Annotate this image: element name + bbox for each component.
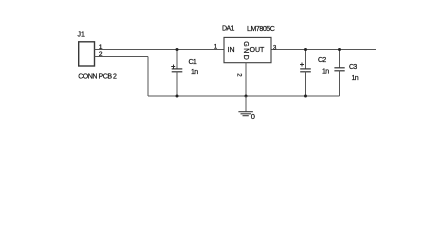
wire ground rail (bottom) xyxy=(148,95,340,97)
wire DA1 OUT to right (VOUT net, top rail right) xyxy=(271,49,376,51)
wire C3 bottom lead xyxy=(339,71,341,96)
ground bar 2 xyxy=(241,113,252,115)
wire J1 pin2 horizontal xyxy=(95,56,149,58)
wire C1 top lead xyxy=(176,50,178,69)
regulator body xyxy=(224,37,271,62)
svg-text:CONN PCB 2: CONN PCB 2 xyxy=(78,73,117,80)
ground bar 1 xyxy=(238,111,253,113)
svg-text:GND: GND xyxy=(242,41,249,61)
C1 polarity plus sign xyxy=(171,66,175,68)
capacitor C3 xyxy=(334,50,358,97)
wire C1 bottom lead xyxy=(176,72,178,96)
svg-text:C1: C1 xyxy=(189,59,197,66)
regulator DA1 xyxy=(222,25,275,62)
junction node ground rail / DA1 GND xyxy=(245,95,248,98)
wire DA1 GND pin down to ground rail xyxy=(245,63,247,96)
svg-text:C3: C3 xyxy=(349,64,357,71)
svg-text:3: 3 xyxy=(273,45,277,52)
C2 polarity plus sign xyxy=(300,64,304,66)
svg-text:OUT: OUT xyxy=(250,47,266,54)
wire C2 bottom lead xyxy=(305,72,307,96)
C2 bottom plate xyxy=(300,71,311,73)
svg-text:1n: 1n xyxy=(191,69,198,76)
svg-text:IN: IN xyxy=(228,47,235,54)
svg-text:1n: 1n xyxy=(322,68,329,75)
svg-text:LM7805C: LM7805C xyxy=(247,26,275,33)
junction node C3 top xyxy=(338,48,341,51)
wire C2 top lead xyxy=(305,50,307,69)
connector body xyxy=(79,42,95,66)
capacitor C2 xyxy=(300,50,329,97)
C3 top plate xyxy=(334,67,344,69)
junction node C2 top xyxy=(304,48,307,51)
ground bar 3 xyxy=(243,115,249,117)
svg-text:DA1: DA1 xyxy=(222,25,235,32)
svg-text:0: 0 xyxy=(251,112,255,121)
C1 top plate xyxy=(172,68,183,70)
capacitor C1 xyxy=(171,50,198,97)
svg-text:1: 1 xyxy=(214,44,218,51)
svg-text:1n: 1n xyxy=(352,75,359,82)
wire C3 top lead xyxy=(339,50,341,68)
junction node C2 bottom xyxy=(304,95,307,98)
svg-text:C2: C2 xyxy=(318,57,326,64)
C2 top plate xyxy=(300,68,311,70)
wire J1 pin1 to DA1 IN (VIN net, top rail left) xyxy=(95,49,225,51)
C3 bottom plate xyxy=(334,70,344,72)
svg-text:J1: J1 xyxy=(78,32,86,39)
wire J1 pin2 vertical down to ground rail xyxy=(147,57,149,97)
C1 bottom plate xyxy=(172,71,183,73)
junction node C1 top xyxy=(176,48,179,51)
connector J1 xyxy=(78,32,118,81)
wire ground stub xyxy=(245,96,247,112)
junction node C1 bottom xyxy=(176,95,179,98)
ground symbol (net 0) xyxy=(238,96,255,121)
